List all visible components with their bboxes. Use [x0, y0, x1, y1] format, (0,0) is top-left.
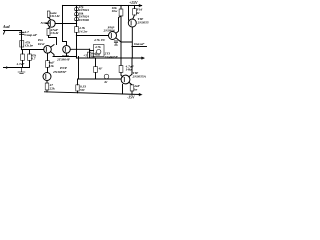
svg-text:Coup.uF: Coup.uF: [25, 33, 38, 37]
svg-text:2N3906: 2N3906: [78, 18, 90, 22]
svg-text:2N3055A: 2N3055A: [132, 75, 147, 79]
svg-text:Out.uF: Out.uF: [134, 42, 145, 46]
svg-text:2N3055F: 2N3055F: [52, 70, 67, 74]
svg-text:2N3906: 2N3906: [103, 29, 115, 33]
svg-text:4.7k 1W: 4.7k 1W: [93, 38, 106, 42]
svg-text:22k: 22k: [49, 87, 55, 91]
svg-text:N3906: N3906: [40, 21, 51, 25]
svg-text:Ch1.br: Ch1.br: [50, 14, 61, 18]
svg-text:41k: 41k: [48, 64, 54, 68]
svg-text:Ck.br: Ck.br: [25, 44, 34, 48]
svg-text:Ch.br: Ch.br: [51, 31, 60, 35]
svg-text:4.7uF: 4.7uF: [16, 62, 26, 66]
svg-text:4.7: 4.7: [30, 57, 35, 61]
svg-text:14.2w: 14.2w: [79, 29, 88, 33]
svg-text:4F: 4F: [98, 67, 104, 71]
svg-text:+15V: +15V: [129, 1, 138, 5]
svg-text:2N4905F: 2N4905F: [104, 55, 119, 59]
svg-text:Drvr: Drvr: [37, 42, 45, 46]
svg-text:-15V: -15V: [127, 96, 135, 100]
svg-text:4.7k: 4.7k: [94, 45, 101, 49]
svg-text:hr: hr: [105, 80, 109, 84]
svg-text:AdJ: AdJ: [94, 53, 101, 57]
svg-text:2N3055: 2N3055: [137, 21, 149, 25]
svg-text:10w: 10w: [112, 9, 118, 13]
svg-text:2T3904F: 2T3904F: [56, 58, 71, 62]
svg-text:Aud: Aud: [2, 25, 10, 29]
